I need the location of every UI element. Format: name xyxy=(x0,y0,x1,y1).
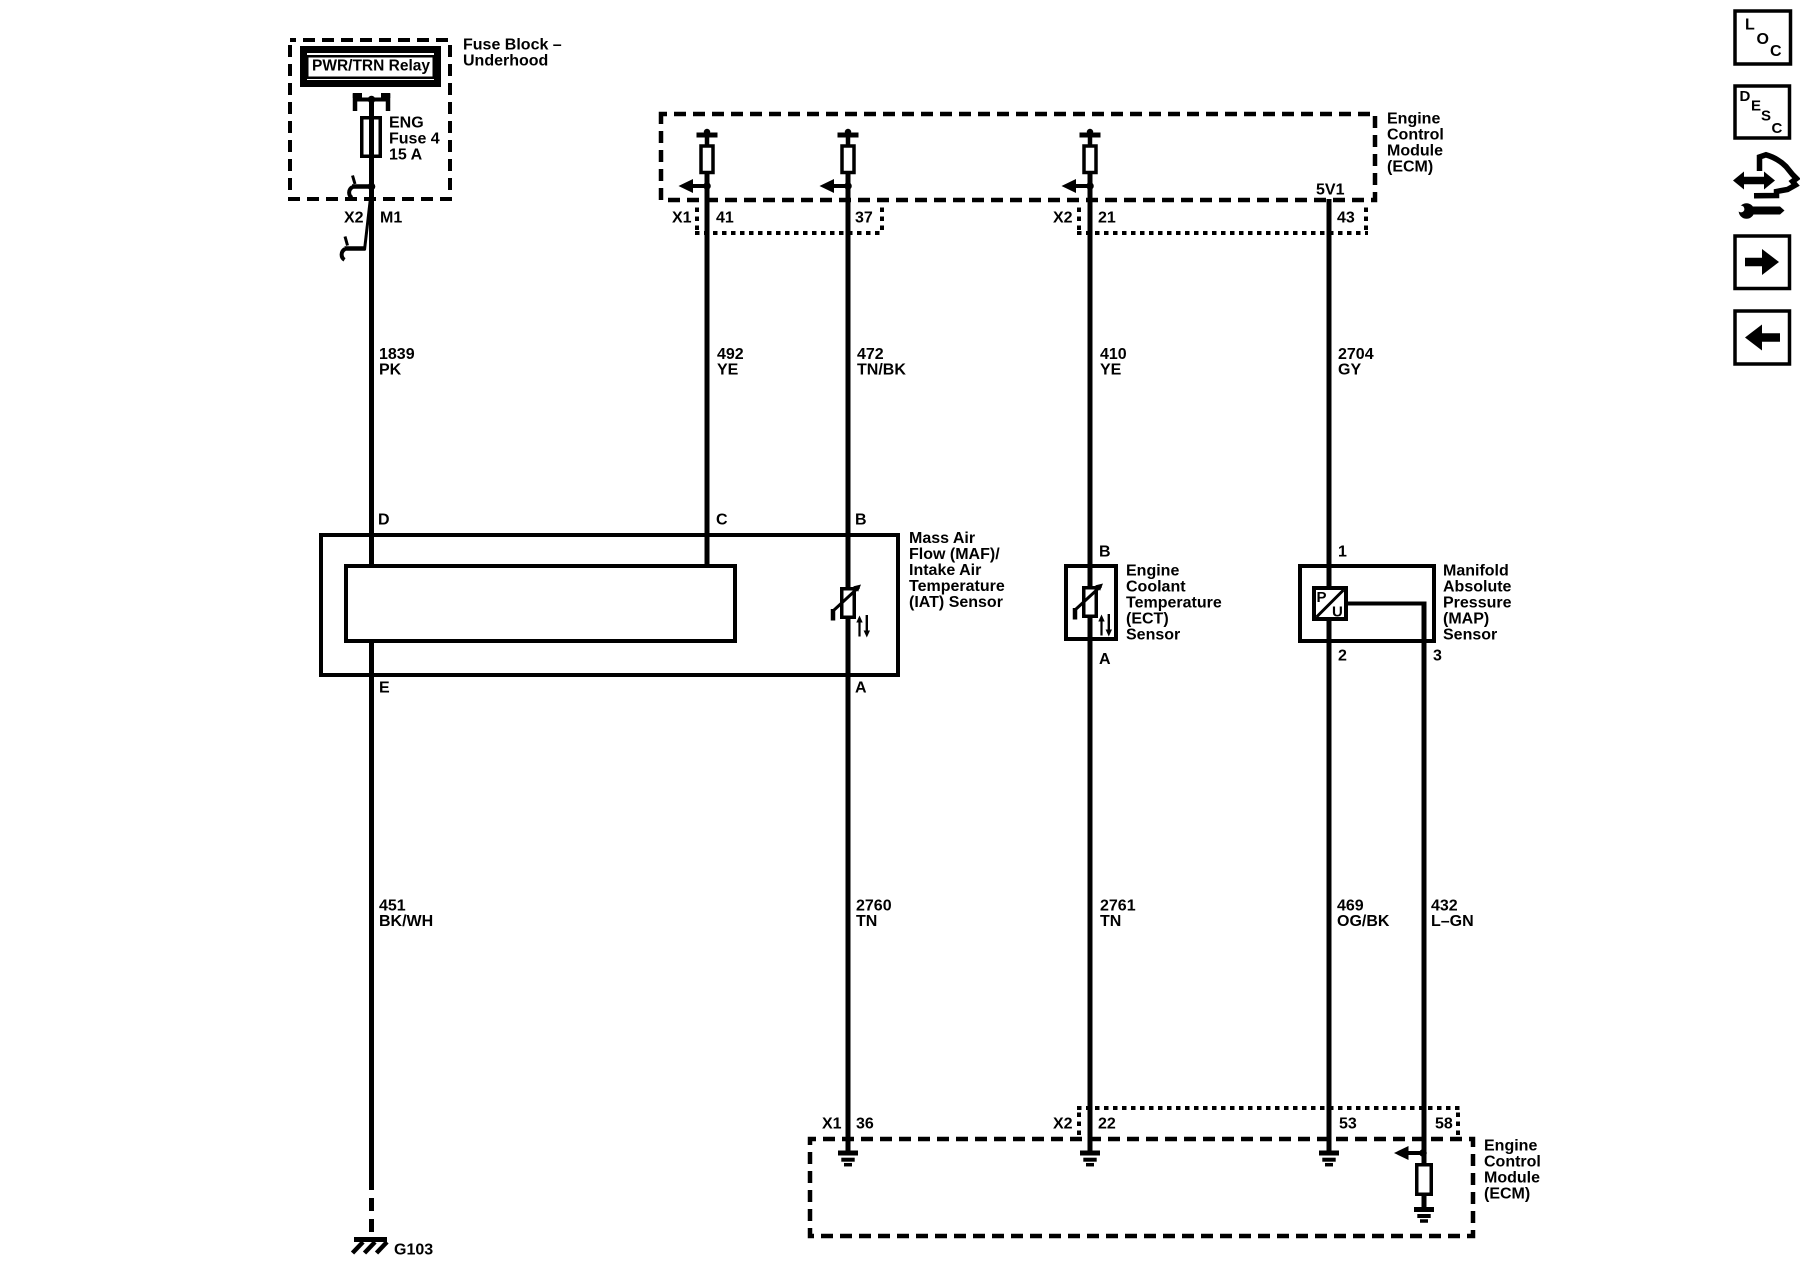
ECM bottom connector strip (X2 22 53 58) xyxy=(1077,1108,1460,1137)
wire 469 OG/BK (MAP pin 2 to ECM 53) xyxy=(1327,621,1332,1151)
svg-text:TN: TN xyxy=(856,913,877,930)
svg-text:58: 58 xyxy=(1435,1116,1453,1133)
icon DESC box xyxy=(1735,86,1790,138)
svg-text:D: D xyxy=(1740,88,1751,105)
svg-text:OG/BK: OG/BK xyxy=(1337,913,1390,930)
svg-text:2760: 2760 xyxy=(856,898,892,915)
svg-text:469: 469 xyxy=(1337,898,1364,915)
wire 1839 PK (fuse block to MAF pin D) xyxy=(369,203,374,566)
IAT thermistor symbol xyxy=(833,585,870,638)
fuse ENG Fuse 4 15 A xyxy=(362,118,381,157)
MAP P/U transducer box xyxy=(1314,588,1346,621)
svg-text:(ECM): (ECM) xyxy=(1387,159,1433,176)
svg-text:Control: Control xyxy=(1484,1154,1541,1171)
svg-text:C: C xyxy=(1770,43,1782,60)
svg-text:L: L xyxy=(1745,17,1755,34)
connector upper hook (fuse block side) xyxy=(349,176,371,198)
svg-text:Coolant: Coolant xyxy=(1126,579,1186,596)
icon double arrow xyxy=(1742,177,1765,185)
connector strip X2 (pins 21,43) xyxy=(1077,203,1368,233)
svg-text:5V1: 5V1 xyxy=(1316,182,1345,199)
svg-text:B: B xyxy=(855,512,867,529)
svg-text:43: 43 xyxy=(1337,210,1355,227)
svg-text:472: 472 xyxy=(857,346,884,363)
svg-text:1: 1 xyxy=(1338,544,1347,561)
icon wrench xyxy=(1739,203,1755,219)
icon LOC box xyxy=(1735,11,1791,64)
connector strip X1 (pins 41,37) xyxy=(695,203,884,233)
wire stub pin 43 inside border xyxy=(1327,199,1332,203)
svg-text:Intake Air: Intake Air xyxy=(909,562,981,579)
ECM top dashed box xyxy=(661,114,1375,200)
svg-text:A: A xyxy=(855,680,867,697)
svg-text:X2: X2 xyxy=(1053,210,1073,227)
svg-text:YE: YE xyxy=(717,362,739,379)
wire 2704 GY (ECM 43 to MAP pin 1) xyxy=(1327,203,1332,588)
svg-text:C: C xyxy=(716,512,728,529)
wire 410 YE (ECM 21 to ECT pin B) xyxy=(1088,203,1093,588)
wire 472 TN/BK (ECM 37 to MAF pin B / IAT) xyxy=(846,203,851,588)
ECM driver symbol pin 41 xyxy=(679,129,718,203)
svg-text:(ECT): (ECT) xyxy=(1126,611,1169,628)
svg-text:Engine: Engine xyxy=(1387,111,1440,128)
svg-text:X2: X2 xyxy=(1053,1116,1073,1133)
svg-text:Manifold: Manifold xyxy=(1443,563,1509,580)
svg-text:41: 41 xyxy=(716,210,734,227)
wire 2760 TN (MAF pin A to ECM X1-36) xyxy=(846,619,851,1151)
svg-text:C: C xyxy=(1772,120,1783,137)
svg-text:B: B xyxy=(1099,544,1111,561)
svg-text:(IAT) Sensor: (IAT) Sensor xyxy=(909,594,1003,611)
connector lower hook xyxy=(342,237,366,260)
ground symbol pin 36 xyxy=(838,1153,858,1165)
svg-text:22: 22 xyxy=(1098,1116,1116,1133)
svg-text:BK/WH: BK/WH xyxy=(379,913,433,930)
svg-text:2761: 2761 xyxy=(1100,898,1136,915)
svg-text:M1: M1 xyxy=(380,210,402,227)
svg-text:X1: X1 xyxy=(672,210,692,227)
svg-text:Module: Module xyxy=(1484,1170,1540,1187)
svg-text:E: E xyxy=(379,680,390,697)
svg-text:21: 21 xyxy=(1098,210,1116,227)
icon left-arrow box xyxy=(1735,311,1790,364)
ground G103 chassis symbol xyxy=(353,1240,388,1254)
svg-text:15 A: 15 A xyxy=(389,147,423,164)
svg-text:G103: G103 xyxy=(394,1242,433,1259)
svg-text:Sensor: Sensor xyxy=(1443,627,1497,644)
svg-text:Engine: Engine xyxy=(1126,563,1179,580)
svg-text:L–GN: L–GN xyxy=(1431,913,1474,930)
svg-text:Temperature: Temperature xyxy=(1126,595,1222,612)
MAP internal link wire to pin 3 xyxy=(1348,602,1427,606)
svg-text:S: S xyxy=(1761,108,1771,125)
svg-text:Temperature: Temperature xyxy=(909,578,1005,595)
svg-text:2: 2 xyxy=(1338,648,1347,665)
junction dot at connector xyxy=(368,183,376,191)
ground symbol pin 22 xyxy=(1080,1153,1100,1165)
svg-text:Control: Control xyxy=(1387,127,1444,144)
svg-text:492: 492 xyxy=(717,346,744,363)
svg-text:Sensor: Sensor xyxy=(1126,627,1180,644)
wire 492 YE (ECM 41 to MAF pin C) xyxy=(705,203,710,566)
svg-text:YE: YE xyxy=(1100,362,1122,379)
svg-text:1839: 1839 xyxy=(379,346,415,363)
svg-text:X2: X2 xyxy=(344,210,364,227)
svg-text:432: 432 xyxy=(1431,898,1458,915)
svg-text:O: O xyxy=(1757,31,1769,48)
svg-text:Fuse Block –: Fuse Block – xyxy=(463,37,562,54)
svg-text:53: 53 xyxy=(1339,1116,1357,1133)
ECM bottom dashed box xyxy=(810,1139,1473,1236)
ECM driver symbol pin 37 xyxy=(820,129,859,203)
ground symbol pin 58 xyxy=(1414,1210,1434,1222)
svg-text:451: 451 xyxy=(379,898,406,915)
relay output terminal symbol xyxy=(353,94,390,112)
svg-text:Absolute: Absolute xyxy=(1443,579,1512,596)
svg-text:Mass Air: Mass Air xyxy=(909,530,975,547)
svg-text:D: D xyxy=(378,512,390,529)
ECT sensor box xyxy=(1066,566,1116,639)
MAP sensor box xyxy=(1300,566,1434,641)
wire 432 L-GN (MAP pin 3 to ECM 58) xyxy=(1422,605,1427,1163)
icon hooked arrow outline xyxy=(1754,155,1797,196)
svg-text:E: E xyxy=(1751,98,1761,115)
fuse block underhood dashed box xyxy=(290,40,450,199)
MAF inner element rectangle xyxy=(346,566,735,641)
svg-text:(MAP): (MAP) xyxy=(1443,611,1489,628)
svg-text:ENG: ENG xyxy=(389,115,424,132)
pin 58 wire to ground xyxy=(1422,1196,1427,1207)
icon right-arrow box xyxy=(1735,236,1790,289)
svg-text:410: 410 xyxy=(1100,346,1127,363)
ECT thermistor symbol xyxy=(1075,584,1112,637)
svg-text:Engine: Engine xyxy=(1484,1138,1537,1155)
svg-text:Flow (MAF)/: Flow (MAF)/ xyxy=(909,546,1000,563)
svg-text:P: P xyxy=(1317,589,1327,606)
wire 451 BK/WH (MAF pin E down to G103) xyxy=(369,641,374,1177)
svg-text:A: A xyxy=(1099,651,1111,668)
svg-text:PK: PK xyxy=(379,362,402,379)
svg-text:PWR/TRN Relay: PWR/TRN Relay xyxy=(312,58,430,75)
wire from relay through fuse (1839 PK) xyxy=(369,100,374,203)
svg-text:X1: X1 xyxy=(822,1116,842,1133)
svg-text:Pressure: Pressure xyxy=(1443,595,1512,612)
svg-text:Underhood: Underhood xyxy=(463,53,548,70)
svg-text:37: 37 xyxy=(855,210,873,227)
svg-text:U: U xyxy=(1332,604,1343,621)
svg-text:(ECM): (ECM) xyxy=(1484,1186,1530,1203)
svg-text:Fuse 4: Fuse 4 xyxy=(389,131,440,148)
pin 58 internal fuse element xyxy=(1417,1165,1432,1195)
svg-text:2704: 2704 xyxy=(1338,346,1374,363)
connector slash (wire between halves) xyxy=(365,189,372,250)
relay PWR/TRN Relay label box xyxy=(304,50,438,84)
svg-text:36: 36 xyxy=(856,1116,874,1133)
svg-text:GY: GY xyxy=(1338,362,1361,379)
svg-text:TN/BK: TN/BK xyxy=(857,362,906,379)
svg-text:TN: TN xyxy=(1100,913,1121,930)
ECM driver symbol pin 21 xyxy=(1062,129,1101,203)
ground symbol pin 53 xyxy=(1319,1153,1339,1165)
MAF/IAT sensor box xyxy=(321,535,898,675)
pin 58 internal arrow xyxy=(1408,1151,1423,1155)
dashed wire to G103 ground xyxy=(369,1177,374,1239)
wire 2761 TN (ECT pin A to ECM X2-22) xyxy=(1088,618,1093,1151)
svg-text:Module: Module xyxy=(1387,143,1443,160)
svg-text:3: 3 xyxy=(1433,648,1442,665)
